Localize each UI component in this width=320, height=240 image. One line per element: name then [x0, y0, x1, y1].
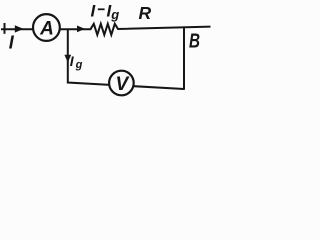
svg-text:A: A	[39, 18, 54, 39]
svg-text:g: g	[110, 7, 119, 22]
svg-text:V: V	[115, 74, 129, 95]
svg-text:g: g	[75, 59, 83, 71]
svg-text:B: B	[189, 31, 200, 53]
svg-text:R: R	[139, 3, 152, 23]
